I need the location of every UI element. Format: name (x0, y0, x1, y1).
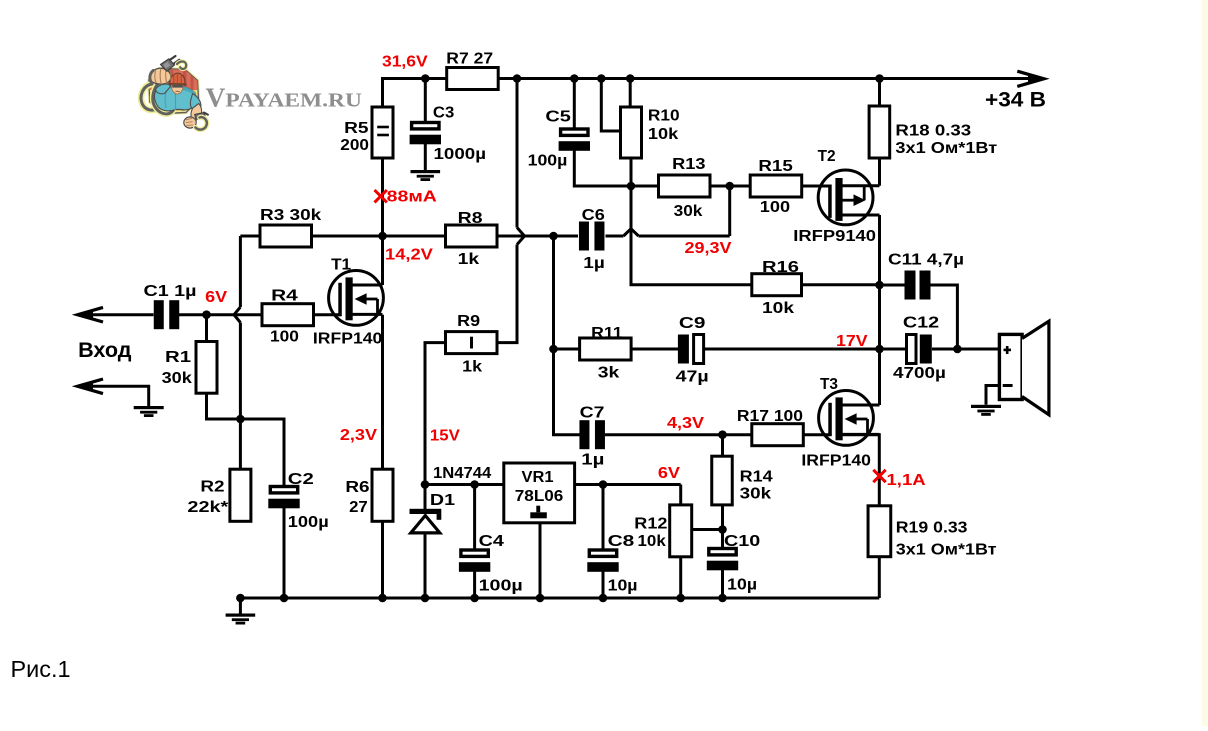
svg-text:30k: 30k (740, 486, 772, 503)
svg-text:47µ: 47µ (676, 369, 709, 386)
wire T3 drain elbow (843, 404, 880, 407)
wire R14 top lead (721, 435, 724, 457)
wire node186 riser to R16 (631, 186, 752, 285)
wire R14 bottom lead (721, 505, 724, 530)
wire C6 right (606, 235, 624, 238)
speaker (999, 334, 1022, 399)
wire D1 bottom lead (424, 533, 427, 598)
wire C9 to output col (17V) (704, 348, 880, 351)
svg-text:88мА: 88мА (387, 188, 438, 205)
svg-text:C12: C12 (903, 315, 939, 332)
resistor R5 (372, 107, 393, 158)
resistor R7 (447, 68, 499, 90)
wire rail to R9 right (upper) (516, 79, 519, 228)
transistor T3 IRFP140 (819, 391, 880, 446)
svg-text:C6: C6 (582, 207, 605, 224)
svg-text:78L06: 78L06 (515, 488, 564, 505)
svg-text:+34 В: +34 В (985, 88, 1046, 111)
+34V rail arrow (1017, 71, 1044, 86)
svg-text:10µ: 10µ (727, 576, 757, 593)
svg-text:Рис.1: Рис.1 (11, 656, 71, 682)
wire riser to R1 bottom row (239, 323, 242, 420)
input arrow bottom with ground (78, 379, 104, 394)
svg-text:100: 100 (270, 328, 299, 345)
resistor R8 (446, 225, 498, 247)
R5 power marks (377, 126, 389, 129)
svg-text:R9: R9 (457, 313, 480, 330)
wire C3 top lead (424, 79, 427, 122)
capacitor C3 (412, 123, 439, 129)
wire C11 right riser (931, 285, 958, 349)
wire T3 source to R19 (843, 435, 880, 506)
wire R2 top lead (239, 419, 242, 469)
wire VR1 ground pin (539, 523, 542, 598)
wire T2 drain down output col (878, 215, 881, 405)
wire R11 left lead (554, 348, 580, 351)
wire R5 top lead (381, 77, 384, 107)
resistor R1 (196, 342, 217, 394)
resistor R2 (230, 469, 251, 521)
wire T1 drain to node 14,2V (381, 236, 384, 285)
resistor R19 (868, 506, 891, 557)
svg-text:3k: 3k (598, 365, 620, 382)
resistor R3 (260, 225, 312, 247)
svg-text:T3: T3 (820, 376, 838, 393)
resistor R10 (621, 107, 642, 158)
wire rail tap to R10 left (601, 79, 621, 132)
capacitor C11 (905, 271, 916, 300)
svg-text:IRFP9140: IRFP9140 (793, 228, 876, 245)
wire C10 bottom lead (721, 570, 724, 598)
resistor R16 (752, 274, 802, 296)
wire R17 to T3 gate (803, 433, 830, 436)
resistor R15 (750, 175, 802, 197)
svg-text:100µ: 100µ (479, 577, 523, 594)
wire T1 source to R6 (381, 315, 384, 470)
current probe 88mA (375, 190, 387, 202)
resistor R14 (712, 456, 733, 505)
svg-text:10µ: 10µ (608, 577, 638, 594)
svg-text:R11: R11 (591, 325, 623, 342)
wire VR1 output 6V row (575, 483, 681, 486)
capacitor C1 (154, 300, 164, 329)
svg-text:C7: C7 (580, 405, 605, 422)
svg-text:R2: R2 (200, 479, 224, 496)
wire R18 top lead (878, 79, 881, 107)
wire output to C12 (880, 348, 907, 351)
svg-text:R14: R14 (740, 468, 773, 485)
svg-text:1,1A: 1,1A (887, 472, 927, 489)
wire +34V rail (383, 77, 1032, 80)
hop x240 over input row (234, 307, 240, 323)
wire R3 left lead (240, 235, 260, 238)
ground at speaker (971, 405, 1001, 408)
svg-text:R16: R16 (762, 259, 799, 276)
wire R4 to T1 gate (314, 313, 342, 316)
svg-text:Вход: Вход (78, 339, 131, 362)
wire R1 bottom to C2 top (207, 393, 285, 485)
capacitor C9 (678, 335, 689, 364)
wire R9 left to node 15V (425, 343, 446, 485)
svg-text:3x1 Ом*1Вт: 3x1 Ом*1Вт (895, 140, 997, 157)
svg-text:1k: 1k (462, 358, 482, 375)
svg-text:R10: R10 (648, 108, 680, 125)
svg-text:C11 4,7µ: C11 4,7µ (888, 252, 964, 269)
wire C4 bottom lead (473, 572, 476, 599)
wire R13 to R15 (709, 185, 750, 188)
svg-text:17V: 17V (836, 333, 868, 350)
svg-text:C2: C2 (288, 471, 314, 488)
wire R3 right lead (312, 235, 383, 238)
wire R10 bottom lead (630, 158, 633, 186)
decorative right edge stripe (1202, 0, 1208, 726)
svg-text:R13: R13 (672, 156, 706, 173)
speaker minus terminal and ground wire (1003, 384, 1013, 387)
svg-text:T1: T1 (331, 256, 351, 273)
ground at C3 (411, 170, 441, 173)
svg-text:100: 100 (760, 199, 790, 216)
logo VPAYAEM.RU mascot (141, 56, 208, 130)
R9 power mark (470, 337, 473, 349)
hop x517 over R8 row (517, 228, 525, 245)
capacitor C10 (709, 549, 736, 555)
svg-text:R7 27: R7 27 (446, 51, 493, 68)
wire C12 right to speaker (932, 348, 999, 351)
wire output to C11 (880, 284, 905, 287)
wire R15 to T2 gate (801, 185, 830, 188)
svg-text:10k: 10k (638, 533, 666, 550)
wire R18 bottom to T2 source (878, 158, 881, 186)
svg-text:R17 100: R17 100 (737, 408, 803, 425)
wire C7 right to R17 (605, 433, 752, 436)
svg-text:1N4744: 1N4744 (433, 465, 491, 482)
svg-text:29,3V: 29,3V (685, 240, 732, 257)
svg-text:C8: C8 (608, 533, 635, 550)
svg-text:1k: 1k (458, 251, 480, 268)
svg-text:C5: C5 (545, 109, 571, 126)
svg-text:100µ: 100µ (288, 514, 329, 531)
wire D1 top lead (424, 485, 427, 511)
svg-text:C4: C4 (479, 533, 504, 550)
resistor R11 (580, 338, 632, 360)
resistor R12 (670, 505, 692, 557)
svg-text:10k: 10k (648, 126, 678, 143)
wire R1 top lead (205, 315, 208, 342)
svg-text:R12: R12 (634, 516, 667, 533)
svg-text:C9: C9 (679, 315, 706, 332)
svg-text:4700µ: 4700µ (893, 365, 946, 382)
svg-text:1µ: 1µ (583, 255, 605, 272)
wire R16 right to output col (802, 283, 880, 286)
input arrow top (78, 307, 104, 322)
svg-text:10k: 10k (762, 300, 794, 317)
svg-text:IRFP140: IRFP140 (801, 453, 871, 470)
svg-text:R4: R4 (271, 287, 298, 304)
svg-text:14,2V: 14,2V (385, 247, 433, 264)
wire hop to R9 right (lower) (516, 245, 519, 343)
wire C8 top lead (602, 485, 605, 550)
svg-text:4,3V: 4,3V (667, 415, 704, 432)
voltage regulator VR1 78L06 (504, 463, 575, 523)
wire C10 top lead (721, 530, 724, 548)
wire R12 tap to C10 node (692, 528, 723, 531)
hop C6 row over x631 riser (624, 229, 639, 236)
wire bottom ground rail (240, 597, 879, 600)
transistor T1 IRFP140 (329, 271, 384, 326)
svg-text:VR1: VR1 (522, 469, 554, 486)
svg-text:1000µ: 1000µ (434, 146, 487, 163)
wire node 15V row (425, 483, 504, 486)
svg-text:R3 30k: R3 30k (260, 207, 321, 224)
svg-text:1µ: 1µ (581, 451, 604, 468)
wire C5 bottom to row 186 (574, 151, 658, 187)
wire node 14,2V to R8 (383, 235, 446, 238)
resistor R4 (262, 304, 314, 326)
resistor R18 (869, 106, 890, 158)
speaker plus terminal (1004, 349, 1012, 352)
ground at bottom rail left (239, 598, 242, 614)
svg-text:IRFP140: IRFP140 (313, 331, 383, 348)
wire R5 bottom to node 14,2V (381, 158, 384, 236)
wire R12 bottom lead (679, 557, 682, 598)
svg-text:2,3V: 2,3V (340, 427, 377, 444)
wire C8 bottom lead (602, 572, 605, 599)
resistor R6 (372, 469, 393, 521)
svg-text:T2: T2 (818, 148, 836, 165)
svg-text:R19 0.33: R19 0.33 (896, 520, 968, 537)
svg-text:R15: R15 (758, 158, 793, 175)
svg-text:22k*: 22k* (187, 499, 229, 516)
zener diode D1 1N4744 (410, 509, 442, 514)
capacitor C4 (461, 550, 488, 556)
svg-text:C10: C10 (724, 533, 760, 550)
svg-text:C3: C3 (433, 104, 455, 121)
wire C6 node riser to C7 (554, 236, 580, 435)
capacitor C12 (907, 335, 917, 364)
ground at input (134, 406, 164, 409)
capacitor C6 (579, 222, 589, 251)
capacitor C8 (589, 550, 616, 556)
svg-text:R1: R1 (165, 349, 191, 366)
svg-text:R8: R8 (458, 210, 483, 227)
svg-text:15V: 15V (430, 427, 460, 444)
wire R8 right to C6 (498, 235, 579, 238)
wire input to C1 (78, 313, 154, 316)
wire C5 top lead (573, 79, 576, 129)
wire C1 to R4 (179, 313, 262, 316)
svg-text:31,6V: 31,6V (382, 53, 428, 70)
wire R11 to C9 (631, 348, 678, 351)
svg-text:200: 200 (340, 137, 369, 154)
current probe 1,1A (873, 470, 885, 482)
svg-text:6V: 6V (205, 289, 227, 306)
svg-text:R5: R5 (344, 120, 369, 137)
svg-text:3x1 Ом*1Вт: 3x1 Ом*1Вт (896, 541, 997, 558)
svg-text:27: 27 (349, 499, 368, 516)
wire R13/R15 node down to C6 row (728, 186, 731, 236)
capacitor C2 (270, 487, 297, 493)
svg-text:30k: 30k (162, 370, 192, 387)
wire R19 bottom lead (878, 557, 881, 598)
wire C2 bottom lead (283, 508, 286, 598)
wire C4 top lead (473, 485, 476, 550)
svg-text:30k: 30k (674, 203, 703, 220)
wire C3 to ground (424, 144, 427, 170)
resistor R9 (446, 332, 498, 354)
resistor R13 (659, 175, 711, 197)
svg-text:R6: R6 (345, 479, 369, 496)
svg-text:6V: 6V (658, 465, 680, 482)
resistor R17 (752, 424, 804, 446)
svg-text:C1 1µ: C1 1µ (144, 283, 197, 300)
svg-text:100µ: 100µ (528, 152, 568, 169)
svg-text:R18 0.33: R18 0.33 (895, 122, 971, 139)
capacitor C5 (561, 129, 588, 135)
wire R12 top lead (679, 485, 682, 505)
svg-text:D1: D1 (430, 492, 455, 509)
transistor T2 IRFP9140 (818, 170, 879, 225)
wire R10 top lead (629, 79, 632, 108)
wire R3 node riser (upper) (239, 236, 242, 307)
capacitor C7 (579, 420, 589, 449)
wire R6 bottom lead (381, 521, 384, 598)
